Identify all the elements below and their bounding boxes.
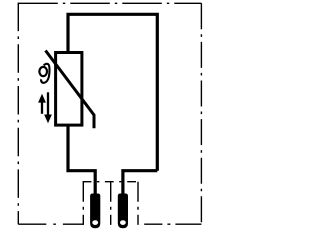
connector slot top line: [83, 181, 139, 183]
thermistor diagonal stroke: [46, 51, 95, 129]
housing boundary right border: [200, 3, 202, 224]
arrow down head: [44, 115, 52, 124]
thermistor R1 body: [56, 53, 82, 126]
connector slot left wall: [82, 182, 84, 225]
wire from thermistor bottom to pin 1: [68, 125, 95, 195]
connector slot middle wall: [110, 182, 112, 225]
terminal pin 2 socket opening: [120, 220, 126, 225]
housing boundary left border: [17, 3, 19, 225]
wire top rail with left and right drops: [68, 14, 157, 170]
terminal pin 1 socket opening: [92, 220, 98, 225]
temperature symbol theta bowl: [39, 67, 47, 76]
terminal pin 1: [90, 194, 100, 229]
arrow up head: [38, 94, 46, 103]
terminal pin 2: [118, 194, 128, 229]
arrow up shaft: [41, 101, 43, 114]
wire from right rail to pin 2: [123, 171, 157, 195]
housing boundary bottom-left border: [18, 223, 83, 225]
connector slot right wall: [137, 182, 139, 225]
housing boundary bottom-right border: [144, 223, 201, 225]
housing boundary top border: [18, 2, 201, 4]
arrow down shaft: [47, 92, 49, 115]
temperature symbol theta stem: [41, 64, 49, 83]
